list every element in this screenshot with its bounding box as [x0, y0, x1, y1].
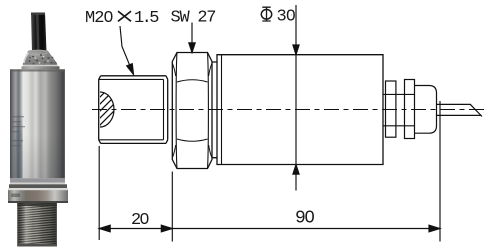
photo: body cylinder: [10, 69, 65, 178]
cable lines: [437, 104, 483, 116]
photo: cable highlight: [36, 14, 40, 51]
neck between hex and body: [212, 62, 217, 158]
photo: hex bottom shadow: [8, 201, 68, 203]
thread stud M20 outline: [99, 76, 168, 144]
dia30 dimension line: [295, 5, 297, 191]
extension line mid (x=172): [171, 172, 173, 242]
photo: neck ring: [22, 66, 60, 69]
photo: thread stud: [17, 203, 57, 247]
photo: gap shadow above hex: [9, 184, 67, 188]
photo: body bottom rim light: [10, 183, 65, 185]
photo: thread bottom: [17, 244, 57, 247]
dim line 20: [99, 228, 172, 230]
pressure port half-ellipse: [100, 92, 114, 127]
hex face arcs: [177, 80, 208, 142]
hex nut SW27 outline: [172, 53, 212, 169]
photo: body lower blue streak: [17, 112, 23, 178]
photo: thread top shadow: [17, 203, 57, 206]
leader M20x1.5: [120, 26, 130, 65]
hex side arcs: [173, 64, 212, 158]
flange line: [221, 55, 223, 165]
photo: cable: [31, 13, 47, 53]
label dia Phi (drawn): [261, 7, 271, 22]
gland cap: [415, 86, 437, 134]
photo: dome highlight arc: [24, 53, 29, 63]
svg-text:90: 90: [295, 209, 314, 229]
photo: dome rim: [23, 65, 58, 67]
dim line 90: [172, 228, 440, 230]
photo: thread shading: [17, 203, 57, 247]
photo: body label marks: [12, 116, 25, 146]
svg-text:1.5: 1.5: [134, 9, 159, 28]
photo: dome speckles: [29, 54, 54, 66]
photo: dome cable gland: [23, 50, 57, 66]
hex face lines: [176, 53, 208, 169]
photo: hex top bevel: [8, 188, 68, 190]
zero-dot masks: [106, 13, 311, 221]
svg-text:30: 30: [277, 8, 296, 27]
centerline: [92, 109, 487, 111]
photo: dome collar ring: [29, 50, 47, 55]
gland barrel: [383, 94, 415, 125]
photo: body bottom chamfer: [10, 178, 65, 182]
gland rib 2: [405, 80, 415, 139]
photo: body lower darkening: [10, 135, 65, 178]
gland rib 1: [386, 81, 396, 137]
thread root lines: [99, 79, 164, 139]
extension line left (x=99): [98, 146, 100, 240]
main body rectangle: [217, 55, 383, 165]
dimension lines / leaders: [99, 5, 440, 242]
photo: hex engraving: [11, 194, 20, 198]
leader SW27 arrow: [191, 23, 193, 49]
svg-text:SW 27: SW 27: [171, 9, 216, 28]
extension line right (x=440): [439, 101, 441, 242]
label x (times): [118, 11, 131, 21]
port hatching: [65, 80, 159, 132]
svg-text:20: 20: [131, 211, 149, 230]
photo: hex nut: [8, 188, 68, 203]
photo: cable top cap: [31, 13, 45, 16]
photo: body top shadow: [10, 69, 65, 71]
